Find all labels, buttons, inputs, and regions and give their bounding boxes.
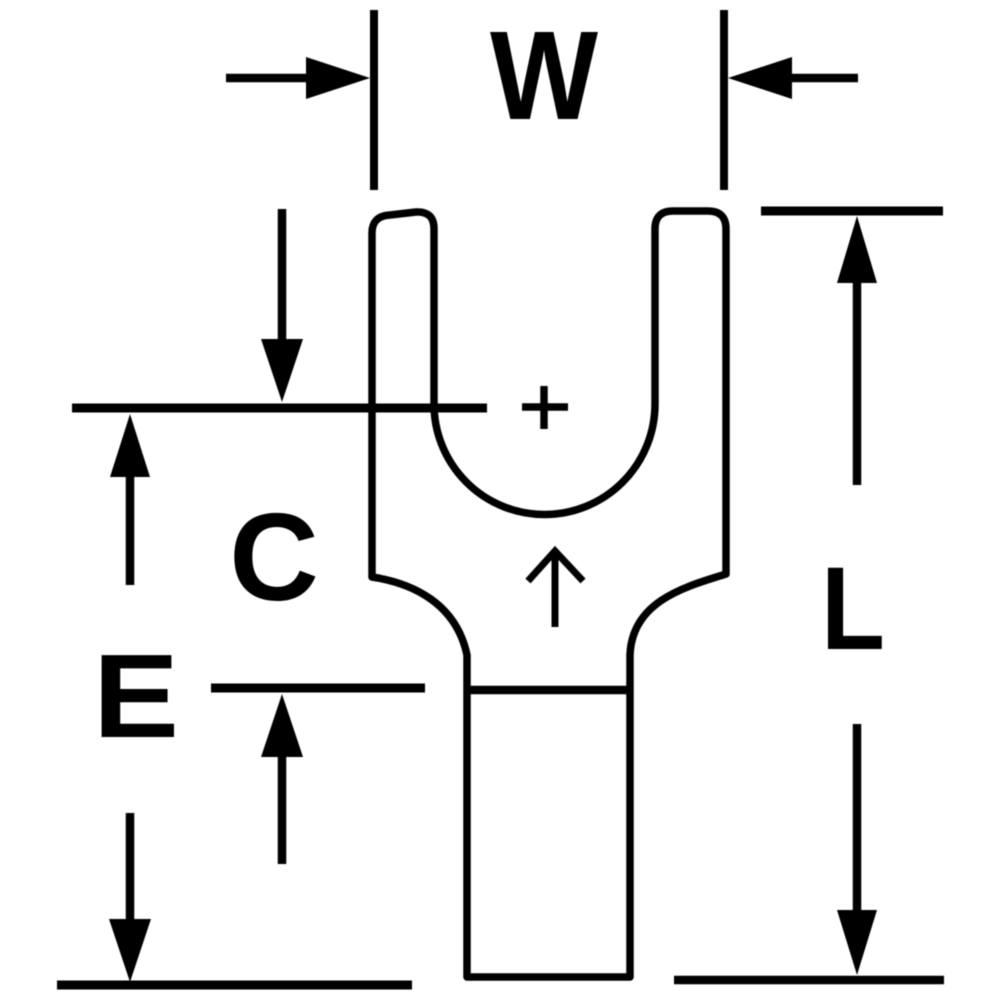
W extension line right xyxy=(720,10,728,190)
W extension line left xyxy=(370,10,378,190)
plus mark xyxy=(522,403,568,411)
svg-text:C: C xyxy=(229,489,319,627)
bottom right reference line xyxy=(674,976,944,985)
W arrow right xyxy=(792,74,858,83)
E reference line xyxy=(211,684,425,693)
W arrow left xyxy=(226,74,312,83)
down arrow above C line xyxy=(278,209,287,342)
up arrow below E line xyxy=(278,755,287,864)
svg-text:W: W xyxy=(490,5,598,146)
C reference line xyxy=(72,404,487,413)
L up arrow xyxy=(853,280,862,485)
fork terminal body outline xyxy=(372,211,726,977)
svg-text:E: E xyxy=(93,630,179,763)
L top reference line xyxy=(761,207,943,216)
bottom left reference line xyxy=(57,981,412,990)
up arrow below C line (left) xyxy=(126,474,135,585)
svg-text:L: L xyxy=(821,543,885,675)
barrel top line xyxy=(467,686,630,695)
down arrow to bottom left line xyxy=(126,813,135,922)
small open up arrow xyxy=(552,553,559,627)
L down arrow xyxy=(853,724,862,911)
